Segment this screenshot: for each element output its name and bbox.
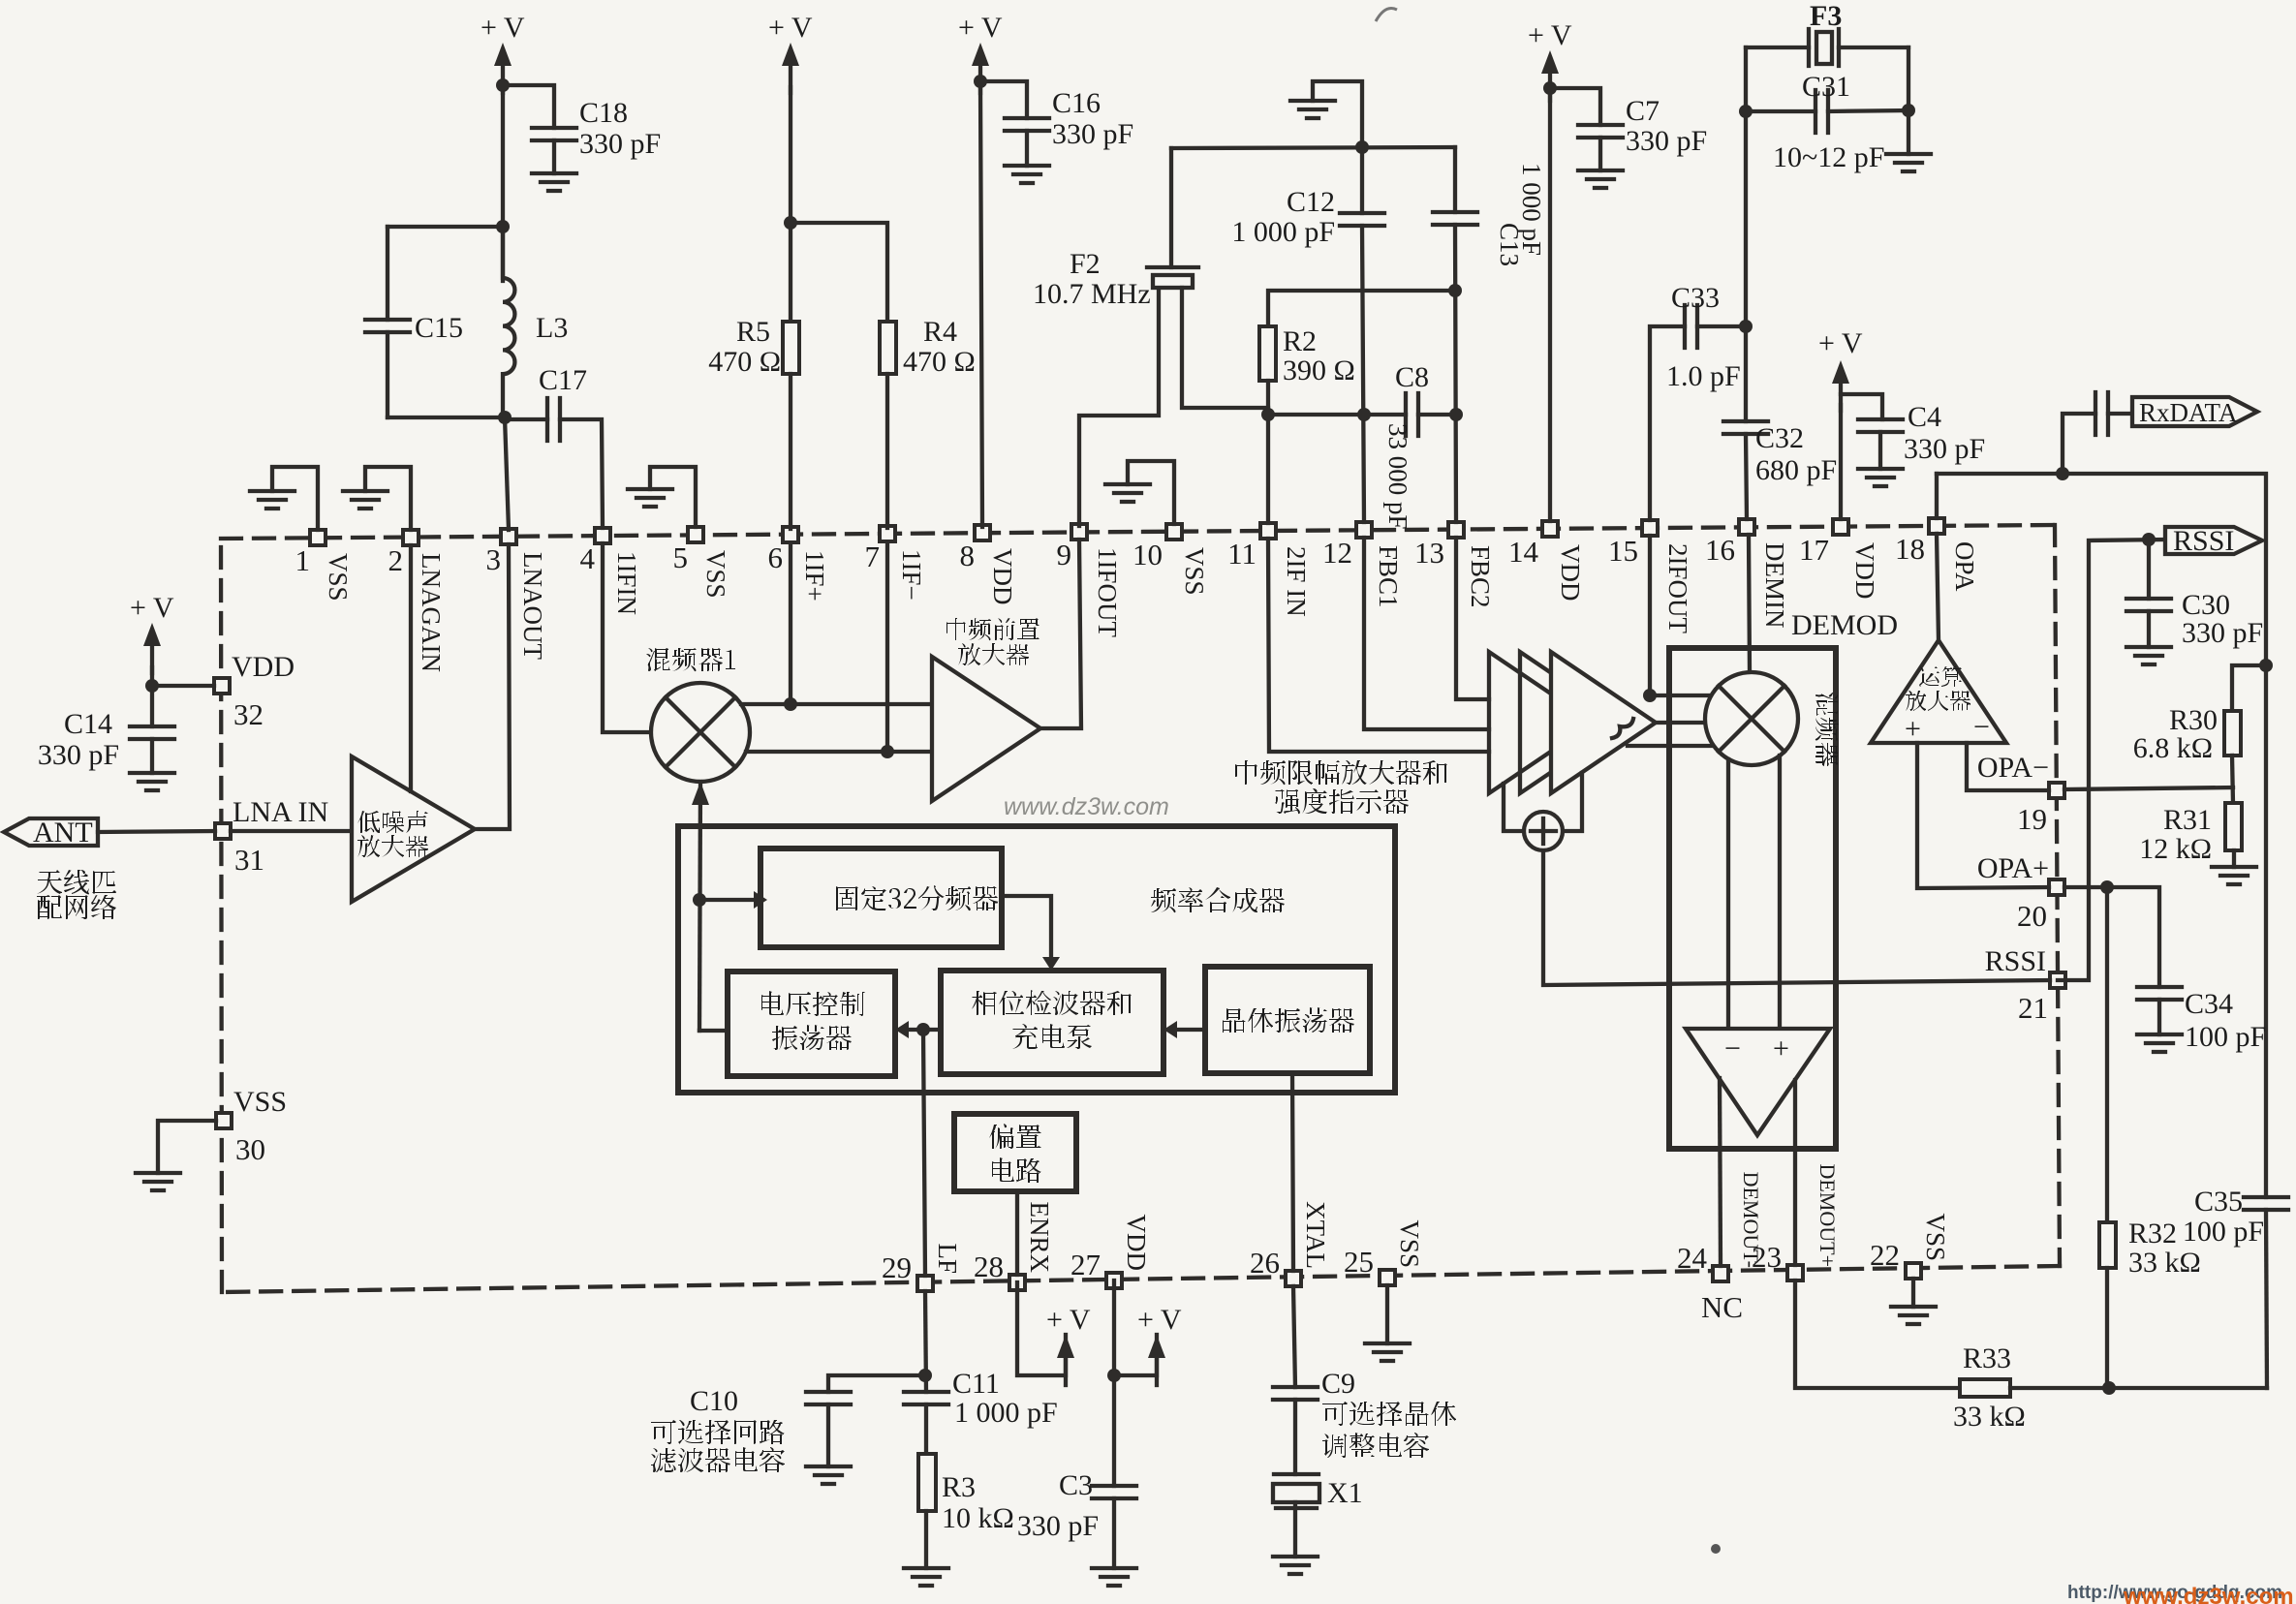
pin 30 VSS [216,1086,287,1166]
wire pin 31 to LNA [231,829,352,833]
wire 1IFOUT to F2 [1079,287,1159,526]
pin 26 XTAL [1250,1201,1330,1286]
svg-text:C3: C3 [1059,1469,1093,1501]
svg-text:RSSI: RSSI [2173,525,2234,557]
capacitor C33 1.0 pF [1666,282,1741,392]
wire pin 12 to limiter [1364,538,1489,729]
wire pin 18 up to RxDATA rail [1935,474,1939,518]
divide-by-32 box [760,848,1002,947]
wire pin 6 down [789,545,792,704]
svg-text:24: 24 [1677,1241,1708,1275]
ground (C4) [1858,469,1903,486]
svg-text:C11: C11 [952,1368,1000,1400]
svg-text:C31: C31 [1802,71,1850,103]
node: C7 tap [1543,81,1557,95]
ground (C3) [1092,1568,1136,1586]
wire R5 to pin 6 [789,374,792,529]
+V supply arrow (LNA tank) [481,12,525,93]
wire +V to R5 [789,87,792,322]
node: R32 R33 junction [2102,1381,2116,1395]
wire IF preamp out to pin 9 [1040,540,1081,728]
op-amp limiter stage 1 [1489,652,1594,793]
pin 11 2IF IN [1227,523,1311,617]
svg-text:C32: C32 [1755,422,1804,454]
wire pin 13 to limiter [1456,538,1489,699]
resistor R2 390 ohm [1259,325,1355,386]
pin 16 DEMIN [1705,519,1789,629]
svg-text:330 pF: 330 pF [1017,1510,1099,1542]
svg-text:21: 21 [2018,991,2048,1025]
svg-text:+ V: + V [130,592,174,624]
wire summing to RSSI line [1543,850,2050,985]
wire pin 2 to LNA gain [409,545,413,791]
resistor R3 10 k [918,1454,1014,1534]
node: R2 top [1448,284,1462,297]
crystal X1 [1273,1474,1363,1509]
pin 29 LF [882,1243,962,1291]
pin 4 1IFIN [580,528,642,615]
pin 9 1IFOUT [1057,524,1123,638]
svg-text:−: − [1973,711,1990,743]
svg-text:+ V: + V [1137,1304,1182,1336]
op-amp limiter stage 3 [1551,652,1656,793]
svg-text:22: 22 [1870,1238,1900,1272]
svg-text:680 pF: 680 pF [1755,454,1837,486]
wire R2 to pin 11 [1266,381,1270,523]
mixer U2 demodulator mixer [1705,672,1839,766]
svg-text:VSS: VSS [1921,1213,1950,1261]
svg-text:+ V: + V [958,12,1003,44]
wire LF to pin 29 [923,1030,925,1276]
wire to coupling cap [2063,414,2095,474]
node: C31 left [1739,105,1753,118]
wire C15 upper lead [386,227,389,320]
wire F2 right lead to R2 node [1182,288,1268,416]
pin 21 RSSI [1985,945,2065,1025]
op-amp 1st IF preamplifier [932,618,1040,801]
summing junction RSSI detector [1524,812,1563,850]
svg-text:VDD: VDD [1850,542,1879,600]
node: divider tap [693,893,706,907]
pin 24 DEMOUT- NC [1677,1172,1763,1324]
svg-text:1.0 pF: 1.0 pF [1666,360,1741,392]
svg-text:www.dz3w.com: www.dz3w.com [1004,793,1169,820]
svg-text:330 pF: 330 pF [1904,433,1985,465]
svg-text:33 kΩ: 33 kΩ [1953,1401,2026,1433]
capacitor C13 1000 pF [1433,147,1546,266]
pin 13 FBC2 [1414,522,1495,608]
wire C15 lower lead [386,332,389,417]
wire +V to tank [501,87,505,281]
svg-text:20: 20 [2017,899,2047,933]
svg-text:R31: R31 [2163,804,2212,836]
wire C33 right [1697,324,1746,328]
wire mixer1 lower output [746,750,932,754]
wire pin 28 +V [1017,1282,1091,1385]
svg-text:DEMOD: DEMOD [1791,609,1898,641]
wire xtal osc to pin 26 [1292,1073,1293,1271]
pin 19 OPA- [1977,752,2064,836]
node: 2IFOUT junction [1643,689,1657,702]
crystal oscillator box [1205,967,1370,1073]
DEMOD block box [1669,648,1836,1149]
svg-text:2: 2 [388,543,404,577]
svg-text:12: 12 [1322,536,1352,570]
svg-text:100 pF: 100 pF [2185,1021,2266,1053]
node: 1IF- tap [881,745,894,758]
ground (C10) [806,1466,851,1484]
svg-text:2IF IN: 2IF IN [1282,546,1311,617]
capacitor C12 1000 pF [1231,147,1384,248]
mixer U1 mixer1 [646,648,750,782]
crystal filter F3 [1746,0,1908,66]
wire to C18 [503,85,554,128]
svg-text:470 Ω: 470 Ω [708,346,781,378]
node: C33 DEMIN junction [1739,320,1753,333]
svg-text:C9: C9 [1321,1368,1355,1400]
wire junction to pin 3 [505,417,509,530]
svg-text:C33: C33 [1671,282,1720,314]
node: R32 tap [2100,880,2114,894]
wire R2 top [1268,291,1455,326]
scan mark top [1376,9,1397,22]
node: C10 tap [918,1369,932,1382]
svg-text:1 000 pF: 1 000 pF [1517,163,1546,256]
pin 14 VDD [1508,521,1585,601]
pin 17 VDD [1799,519,1879,600]
op-amp LNA low noise amplifier [352,756,475,902]
svg-text:3: 3 [486,542,502,576]
node: C18 tap [496,78,510,92]
ground (pin 22) [1891,1279,1936,1324]
svg-text:R2: R2 [1283,325,1317,357]
wire arrow into divider [699,891,767,909]
svg-text:15: 15 [1608,534,1638,568]
pin 12 FBC1 [1322,522,1403,608]
wire limiter low tap to demod mixer [1628,744,1711,748]
wire divider to phase detector [1002,896,1060,971]
svg-text:R3: R3 [942,1471,976,1503]
svg-text:LNAGAIN: LNAGAIN [417,553,446,672]
pin 8 VDD [960,525,1018,605]
capacitor C35 100 pF [2183,1186,2288,1248]
bias circuit box [954,1114,1076,1191]
node: C8 right on C13 line [1449,408,1463,421]
svg-text:5: 5 [673,540,689,574]
svg-text:C34: C34 [2185,988,2233,1020]
svg-text:2IFOUT: 2IFOUT [1663,543,1692,634]
svg-text:FBC1: FBC1 [1374,545,1403,608]
svg-text:100 pF: 100 pF [2183,1216,2264,1248]
svg-text:8: 8 [960,539,976,572]
pin 1 VSS [295,530,354,601]
wire xtal osc to phase det [1164,1021,1205,1038]
ground (C30) [2126,647,2171,664]
svg-text:29: 29 [882,1250,912,1284]
wire tank bottom horizontal [388,416,505,419]
node: RxDATA tap [2056,467,2069,480]
op-amp demod output amplifier [1686,1029,1830,1135]
svg-text:9: 9 [1057,538,1072,571]
svg-text:C16: C16 [1052,87,1101,119]
node: pin 27 branch [1107,1369,1121,1382]
svg-text:C14: C14 [64,708,112,740]
svg-text:C35: C35 [2194,1186,2243,1218]
capacitor C3 330 pF [1017,1469,1136,1542]
frequency synthesizer box [678,826,1395,1093]
node: R30 tap [2259,659,2273,672]
wire to C10 [828,1375,925,1392]
svg-text:OPA+: OPA+ [1977,852,2049,884]
svg-text:VSS: VSS [324,553,353,601]
svg-text:OPA−: OPA− [1977,752,2049,784]
svg-text:10~12 pF: 10~12 pF [1773,141,1884,173]
svg-text:+ V: + V [1818,327,1863,359]
svg-text:10.7 MHz: 10.7 MHz [1033,278,1151,310]
svg-text:28: 28 [974,1249,1004,1283]
node: 1IF+ tap [784,697,797,711]
svg-text:L3: L3 [536,312,568,344]
wire +V to pin 8 [980,87,982,527]
pin 5 VSS [673,527,731,599]
svg-text:C17: C17 [539,364,587,396]
resistor R31 12 k [2139,803,2242,865]
svg-text:DEMIN: DEMIN [1760,542,1789,629]
wire pin 18 to op-amp [1937,534,1939,640]
node: C8 left on C12 line [1357,408,1371,421]
wire DEMIN upper [1744,326,1748,421]
wire C13 to pin 13 [1455,225,1456,522]
pin 6 1IF+ [768,527,830,601]
wire demod mixer to amp minus [1726,759,1730,1029]
svg-text:+ V: + V [768,12,813,44]
svg-text:VSS: VSS [701,550,730,599]
wire pin 15 to demod mixer upper [1650,536,1711,695]
svg-text:330 pF: 330 pF [38,739,119,771]
svg-text:NC: NC [1701,1290,1743,1324]
wire bias to pin 28 [1015,1191,1019,1275]
phase detector box [941,971,1164,1074]
node: LNAOUT junction [498,411,512,424]
svg-text:OPA: OPA [1950,541,1979,592]
svg-text:+ V: + V [481,12,525,44]
capacitor C7 330 pF [1578,95,1707,170]
svg-text:31: 31 [234,843,264,877]
wire F3 right down [1907,47,1910,154]
wire pin 29 to C11 [925,1291,926,1392]
capacitor C18 330 pF [532,97,661,173]
ground (F3 right) [1886,154,1931,171]
svg-text:C8: C8 [1395,361,1429,393]
svg-text:+ V: + V [1528,19,1572,51]
svg-text:X1: X1 [1327,1477,1363,1509]
wire pin 15 to C33 [1650,326,1685,520]
ground (C7) [1578,170,1623,188]
svg-text:VSS: VSS [233,1086,287,1118]
ground (C18) [532,173,576,191]
ceramic filter F2 10.7 MHz [1033,148,1198,310]
ground (pin 5) [628,467,696,527]
ground (top wire) [1290,81,1362,147]
pin 20 OPA+ [1977,852,2064,933]
wire C11 to R3 [924,1404,928,1454]
wire C32 to pin 16 [1746,434,1747,519]
svg-text:RxDATA: RxDATA [2139,398,2238,427]
wire demod mixer to amp plus [1778,756,1782,1029]
svg-text:C12: C12 [1287,186,1335,218]
wire pin 20 to C34 [2064,887,2159,987]
wire R32 lower [2105,1268,2109,1388]
top coupling wire (C12 C13) [1171,147,1455,148]
ANT connector [4,817,98,848]
resistor R33 33 k [1953,1342,2026,1433]
wire R32 upper [2105,887,2109,1222]
svg-text:1 000 pF: 1 000 pF [1231,216,1335,248]
svg-text:17: 17 [1799,533,1829,567]
ground (C16) [1005,166,1049,183]
capacitor C11 1000 pF [904,1368,1058,1429]
svg-text:7: 7 [865,540,881,573]
wire op-amp plus to pin 20 [1917,743,2049,888]
node: ground tap on top wire [1355,140,1369,154]
svg-text:XTAL: XTAL [1301,1201,1330,1269]
wire C9 to X1 [1293,1400,1297,1474]
ground (pin 30) [136,1121,216,1190]
wire C17 right to pin 4 [560,419,603,528]
pin 23 DEMOUT+ [1752,1163,1840,1280]
capacitor C9 optional crystal trim [1273,1368,1456,1458]
wire X1 to ground [1293,1502,1297,1557]
svg-text:10 kΩ: 10 kΩ [942,1502,1014,1534]
wire pin 27 +V [1114,1304,1182,1385]
wire C35 down to R33 rail [2266,1210,2267,1388]
wire R3 to ground [924,1511,928,1568]
wire to R4 branch [791,223,887,322]
resistor R5 470 ohm [708,316,799,378]
svg-text:R4: R4 [923,316,957,348]
resistor R4 470 ohm [880,316,976,378]
wire R30 to node [2232,756,2233,803]
svg-text:13: 13 [1414,536,1444,570]
capacitor C16 330 pF [1005,87,1133,166]
wire limiter to summing [1504,784,1525,831]
svg-text:LF: LF [933,1243,962,1274]
ground (pin 25) [1365,1285,1410,1361]
svg-text:10: 10 [1132,538,1163,571]
svg-text:RSSI: RSSI [1985,945,2046,977]
wire mixer1 LO input [692,782,709,1031]
ground (pin 1) [250,467,318,530]
svg-text:33 kΩ: 33 kΩ [2128,1247,2201,1279]
svg-text:1 000 pF: 1 000 pF [954,1397,1058,1429]
capacitor C8 33000 pF [1383,361,1429,530]
node: C16 tap [974,75,987,88]
capacitor C17 [539,364,587,441]
svg-text:330 pF: 330 pF [2182,617,2263,649]
wire RSSI right [2058,540,2165,980]
wire C8 left [1268,413,1406,416]
svg-text:C4: C4 [1908,401,1941,433]
wire C17 left [505,417,547,421]
scan speck [1711,1544,1721,1554]
svg-text:27: 27 [1070,1248,1101,1281]
wire ANT to pin 31 [98,831,215,832]
wire op-amp minus to pin 19 [1967,743,2049,790]
wire pin 11 to limiter [1268,539,1489,752]
ground (pin 10) [1105,461,1174,524]
svg-text:1IF+: 1IF+ [800,550,829,601]
svg-text:ANT: ANT [33,817,93,848]
wire LNA out to pin 3 [475,544,510,829]
svg-text:6: 6 [768,540,784,574]
+V supply arrow (pin 17) [1818,327,1863,411]
wire tank top horizontal [388,225,503,229]
RxDATA port connector [2132,397,2257,427]
resistor R32 33 k [2099,1218,2201,1279]
ground (R31) [2212,850,2256,884]
svg-text:F2: F2 [1070,248,1101,280]
svg-text:VDD: VDD [988,548,1017,605]
svg-text:ENRX: ENRX [1025,1202,1054,1274]
wire +V to pin 14 [1548,95,1552,521]
capacitor C4 330 pF [1858,401,1985,469]
ground (R3) [904,1568,948,1586]
+V supply arrow (pin 8) [958,12,1003,93]
svg-text:1IF−: 1IF− [897,549,926,601]
wire DEMOUT+ to pin 23 [1793,1080,1797,1265]
wire to C7 [1550,88,1600,125]
svg-text:330 pF: 330 pF [1052,118,1133,150]
resistor R30 6.8 k [2133,704,2241,764]
label IF limiting amplifier [1235,760,1447,814]
svg-text:+: + [1773,1033,1789,1064]
svg-text:+: + [1905,713,1921,745]
wire phase det to VCO [895,1021,941,1038]
svg-text:16: 16 [1705,533,1735,567]
wire limiter out to demod mixer [1656,721,1706,725]
svg-text:25: 25 [1344,1245,1374,1279]
pin 2 LNAGAIN [388,530,447,672]
wire +V to pin 17 [1839,405,1843,519]
wire limiter3 to summing [1562,773,1582,831]
+V supply arrow (pin 14) [1528,19,1572,101]
op-amp OPA operational amplifier [1871,640,2006,745]
+V supply arrow (R5 R4) [768,12,813,93]
node: R4 tap [784,216,797,230]
inductor L3 [503,227,568,417]
node: R2 bottom junction [1261,408,1275,421]
pin 27 VDD [1070,1215,1151,1289]
wire RxDATA rail [1937,474,2266,1197]
svg-text:VDD: VDD [1556,544,1585,601]
wire +V to pin 32 [152,667,214,686]
capacitor C32 680 pF [1723,421,1837,486]
wire to C14 [150,686,154,726]
wire C3 to ground [1112,1498,1116,1568]
svg-text:www.dz3w.com: www.dz3w.com [2123,1584,2294,1604]
node: RSSI box tap [2142,533,2156,546]
op-amp limiter stage 2 [1520,652,1625,793]
capacitor C34 100 pF [2137,987,2266,1053]
wire pin 4 to mixer 1 [603,543,651,732]
svg-text:18: 18 [1895,532,1925,566]
wire pin 26 to C9 [1293,1286,1295,1387]
svg-text:32: 32 [233,697,264,731]
svg-text:LNA IN: LNA IN [233,796,328,828]
svg-text:C7: C7 [1626,95,1660,127]
capacitor C10 optional loop filter [651,1385,851,1472]
pin 15 2IFOUT [1608,520,1692,634]
